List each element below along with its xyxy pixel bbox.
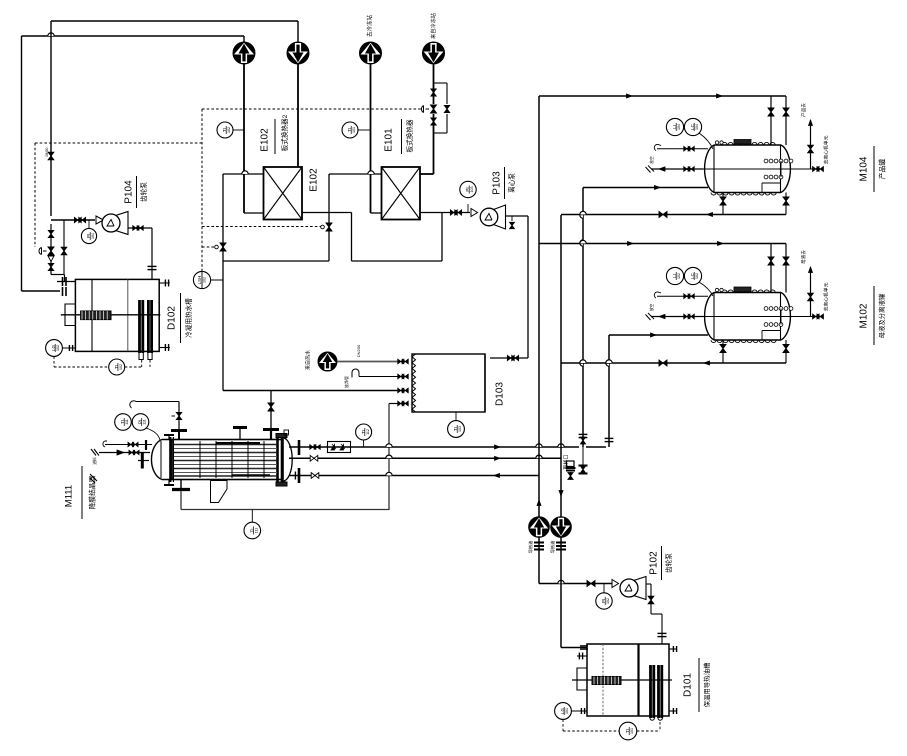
label D102 — [167, 293, 193, 343]
svg-text:DN50: DN50 — [45, 147, 49, 156]
label D103 — [495, 382, 506, 406]
label feed to D103 — [304, 344, 361, 370]
label P102 — [649, 546, 673, 580]
wire main riser x=539 (to headers) — [539, 96, 627, 476]
svg-text:E101: E101 — [384, 128, 395, 152]
svg-text:去离心机单元: 去离心机单元 — [822, 135, 829, 164]
svg-text:来自热水: 来自热水 — [304, 350, 311, 370]
wire crystallizer line1 y=447 to M104/M102 feed risers — [289, 442, 579, 453]
svg-text:101: 101 — [630, 728, 634, 734]
label E101 — [384, 119, 414, 154]
svg-text:111: 111 — [125, 419, 129, 424]
valve isolation lower on riser x=434 — [431, 114, 436, 127]
node M111 top nozzle x=240 — [233, 428, 247, 440]
vessel M111 melt crystallizer shell — [151, 434, 292, 487]
pump P103 centrifugal — [471, 205, 506, 229]
instrument TI on D102 heaters — [109, 359, 150, 375]
wire M111 axial nozzle — [138, 453, 149, 469]
instrument TI at E101 inlet — [342, 122, 371, 138]
wire M104 gooseneck nozzle — [654, 144, 708, 151]
instrument LG-101 on D101 — [555, 703, 619, 731]
node flow-arrow circle 3 (chilled brine riser x=371) — [360, 42, 382, 213]
svg-text:保温用导热油槽: 保温用导热油槽 — [702, 662, 711, 707]
wire vertical x=223 D102 riser with control valve — [215, 174, 226, 391]
wire M102 top distribution header y=243.5 — [539, 240, 789, 292]
node hose stack on x=561 — [556, 543, 566, 550]
label sample port — [562, 454, 569, 469]
wire vent gooseneck to D103 — [343, 369, 399, 388]
valve bypass on x=447 — [444, 105, 449, 112]
support boot under M111 — [211, 481, 228, 503]
label M102 — [859, 286, 887, 345]
svg-text:102: 102 — [677, 273, 681, 279]
wire riser x=434 to E101 top-right nozzle — [420, 127, 434, 174]
instrument TI at E102 inlet — [217, 122, 244, 138]
wire bypass loop around control valve TV-101 — [434, 83, 448, 133]
label to centrifuge unit M102 — [822, 282, 829, 311]
svg-text:102: 102 — [56, 345, 60, 351]
svg-text:D101: D101 — [683, 673, 694, 697]
node flow-arrow circle 7 on x=539 — [527, 517, 549, 554]
svg-text:LSH: LSH — [197, 276, 202, 285]
wire E102 left-bottom nozzle from circle-1 riser — [244, 212, 264, 214]
svg-text:母液去: 母液去 — [800, 250, 807, 264]
node flow-arrow circle 5 feed to D103 — [318, 352, 399, 371]
svg-text:产品去: 产品去 — [800, 103, 807, 117]
svg-text:放空: 放空 — [649, 156, 654, 164]
instrument PI on P102 suction — [596, 584, 612, 610]
instrument TI under D103 — [448, 412, 465, 437]
svg-text:102: 102 — [202, 277, 206, 283]
tank D101 thermal oil tank — [572, 637, 677, 720]
wire P104 discharge to D102 top — [128, 226, 157, 279]
svg-text:102: 102 — [695, 273, 699, 279]
svg-text:P102: P102 — [649, 551, 660, 575]
tank D103 with coil — [412, 354, 485, 412]
valve drain stub on P103 discharge — [510, 216, 515, 229]
wire dashed signal to valve at (223,247) — [202, 246, 216, 248]
svg-text:M111: M111 — [64, 485, 75, 507]
svg-text:102: 102 — [227, 127, 231, 133]
node D103 nozzle flanges — [398, 359, 408, 406]
wire collect header into D101 top-left nozzle — [577, 646, 588, 660]
label P103 — [492, 167, 516, 199]
wire M104 top distribution header y=96 — [627, 94, 790, 145]
instrument TI/PI pair at M111 left — [115, 414, 160, 440]
svg-text:101: 101 — [352, 127, 356, 133]
wire M102 vent line left with battery arrow — [646, 304, 704, 320]
label P104 — [124, 176, 148, 208]
wire D103 bottom outlet riser x=389 — [389, 404, 399, 511]
instrument TI on line1 — [356, 424, 372, 447]
node M111 right nozzle flanges — [298, 440, 301, 483]
wire crystallizer line3 y=475.5 return from P102 loop — [289, 472, 539, 480]
wire P102 discharge to D101 — [646, 584, 667, 644]
wire collect riser x=561 (M104+M102 drains, line2) down to D101 — [559, 215, 587, 648]
wire M102 mother-liquor riser up with arrow — [800, 250, 813, 317]
svg-text:放净管: 放净管 — [343, 376, 349, 388]
svg-text:P104: P104 — [124, 180, 135, 204]
label D101 — [683, 658, 712, 712]
svg-text:降膜结晶器: 降膜结晶器 — [87, 475, 96, 509]
node flow-arrow circle 1 (cooling water return riser x=244) — [233, 36, 255, 213]
svg-text:E102: E102 — [260, 128, 271, 152]
svg-text:D102: D102 — [167, 306, 178, 330]
wire M111 top vent line with gooseneck — [103, 440, 152, 450]
wire y=174 E102 to E101 — [329, 171, 382, 174]
node D102 left nozzles flanges — [57, 277, 75, 296]
node M111 top nozzle small x=169 — [164, 435, 174, 440]
valve station on x=51 down to D102 (isolation-control-isolation) — [39, 224, 54, 275]
node M111 top nozzle x=179 with valve — [171, 402, 187, 440]
label brine return above circle 4 — [429, 13, 437, 39]
wire dashed signal to valve at (329,227) — [202, 226, 321, 228]
node hose stack on x=539 — [534, 543, 544, 550]
instrument PI on P103 suction — [460, 181, 476, 212]
wire M104 bottom drains to header y=214.5 — [561, 193, 789, 218]
wire M102 feed riser x=609 — [605, 335, 614, 447]
svg-text:E102: E102 — [309, 168, 320, 192]
heat exchanger E102 plate type — [264, 167, 303, 220]
wire hot water from D102 to D103 y=390.5 — [223, 390, 399, 392]
svg-text:板式换热器: 板式换热器 — [405, 119, 414, 152]
wire line1 continue to riser x=609 — [586, 446, 606, 448]
svg-text:导热油: 导热油 — [549, 541, 556, 554]
svg-text:冷凝用热水槽: 冷凝用热水槽 — [184, 298, 193, 338]
svg-text:齿轮泵: 齿轮泵 — [664, 553, 673, 573]
svg-text:104: 104 — [695, 124, 699, 130]
wire vertical x=329 with valve (hot side) — [321, 174, 332, 261]
instrument PI on P104 suction — [81, 220, 96, 244]
vessel M111 internal tubes and baffles — [174, 441, 277, 478]
instrument TI under D101 — [619, 722, 660, 740]
valve isolation upper on riser x=434 — [431, 88, 436, 105]
svg-text:M104: M104 — [859, 156, 870, 181]
wire M104 centerline and right outlet — [703, 167, 823, 172]
svg-text:103: 103 — [458, 426, 462, 432]
node blind flange stub under line1 on x=583 — [579, 447, 588, 474]
svg-text:111: 111 — [254, 528, 258, 533]
wire M102 bottom drains to header y=363 — [561, 340, 789, 366]
instrument small TE on M111 shell top — [284, 430, 289, 440]
wire far-left vertical into D102 nozzle 2 — [22, 290, 61, 292]
svg-text:母液及分离液罐: 母液及分离液罐 — [877, 293, 886, 338]
wire E102 right-bottom to U-loop — [302, 213, 352, 262]
wire M102 centerline and right outlet — [703, 314, 823, 319]
wire M102 gooseneck nozzle — [654, 292, 708, 299]
wire M111 feed line with battery-limit arrow — [91, 449, 150, 465]
node flow-arrow circle 4 (brine return riser x=434) — [423, 42, 445, 88]
vessel M102 mother liquor tank — [705, 287, 793, 343]
instrument LI/LC pair on M102 — [666, 267, 713, 296]
wire P103 discharge to D103 — [490, 216, 528, 361]
instrument LG-102 on D102 — [46, 340, 109, 367]
wire top header B (y=21) to riser of circle arrow 2 — [51, 21, 298, 152]
svg-text:103: 103 — [470, 187, 474, 193]
svg-text:112: 112 — [366, 429, 370, 435]
wire M104 feed riser x=583 — [579, 188, 588, 448]
wire E101 outlet to P103 suction — [420, 210, 470, 215]
wire M104 feed entering lower-left — [583, 186, 708, 190]
node flow-arrow circle 8 on x=561 — [549, 517, 571, 554]
svg-text:101: 101 — [565, 708, 569, 714]
svg-text:齿轮泵: 齿轮泵 — [139, 182, 148, 202]
svg-text:104: 104 — [91, 233, 95, 239]
svg-text:放空: 放空 — [649, 304, 654, 312]
svg-text:进料: 进料 — [92, 457, 97, 465]
vessel M104 product tank — [705, 140, 793, 196]
label E102 — [260, 114, 289, 154]
valve control TV-101 with diaphragm actuator — [421, 105, 436, 113]
svg-text:去冷冻站: 去冷冻站 — [365, 15, 373, 38]
wire E102 left-top nozzle from x=223 — [223, 171, 264, 174]
wire crystallizer line2 y=458.3 to collect header x=561 — [289, 455, 561, 461]
label M104 — [859, 146, 887, 192]
wire E101 left-bottom from brine riser — [371, 212, 382, 214]
tank D102 hot water tank — [61, 279, 170, 359]
wire M104 vent line left with battery arrow — [646, 156, 704, 172]
wire M111 bottom drain header y=509.5 — [181, 509, 389, 511]
svg-text:M102: M102 — [859, 303, 870, 328]
wire riser x=539 lower leg to P102 suction — [537, 476, 612, 587]
node M111 top nozzle x=271 with valve from D102 water line — [263, 391, 279, 440]
svg-text:产品罐: 产品罐 — [877, 159, 886, 180]
svg-text:DN200: DN200 — [356, 344, 361, 357]
instrument level switch circle at (202,280) — [193, 271, 223, 288]
svg-text:P103: P103 — [492, 171, 503, 195]
wire into D102 top-left nozzle — [51, 275, 65, 282]
svg-text:104: 104 — [677, 124, 681, 130]
svg-text:离心泵: 离心泵 — [507, 173, 516, 193]
wire top header A (y=36) from left edge to riser of circle arrow 1 — [22, 33, 245, 291]
pump P102 gear pump — [612, 577, 646, 600]
heat exchanger E101 plate type — [382, 167, 421, 220]
svg-text:D103: D103 — [495, 382, 506, 406]
node flow-arrow circle 2 (cooling water supply riser x=298) — [287, 21, 309, 167]
svg-text:102: 102 — [606, 598, 610, 604]
wire bypass x=64 with valve — [61, 220, 67, 275]
svg-text:111: 111 — [143, 419, 147, 424]
wire vertical x=51 supply to P104 suction with valve — [45, 147, 54, 216]
svg-text:导热油: 导热油 — [527, 541, 534, 554]
label E102 tag beside box — [309, 168, 320, 192]
instrument TI under M111 drain — [244, 510, 261, 539]
wire M111 vent from gooseneck top — [130, 401, 179, 408]
wire M104 product riser up with arrow — [800, 103, 813, 169]
node M111 bottom drain nozzle — [172, 480, 190, 510]
wire hot water loop y=261 — [223, 213, 442, 261]
svg-text:板式换热器2: 板式换热器2 — [280, 114, 289, 151]
svg-text:102: 102 — [119, 364, 123, 370]
glyph small marker bottom-left of M111 — [90, 474, 97, 483]
label brine supply above circle 3 — [365, 15, 373, 38]
wire dashed signal main loop (202,109)-(423,109) and down to LS circle — [35, 109, 424, 272]
svg-text:去离心机单元: 去离心机单元 — [822, 282, 829, 311]
pump P104 gear pump — [102, 212, 128, 235]
svg-text:来自冷冻站: 来自冷冻站 — [429, 13, 437, 39]
node M111 bottom small nozzle — [164, 480, 174, 486]
node sample funnel on x=561 — [566, 461, 576, 479]
instrument LI/LC pair on M104 — [666, 118, 713, 149]
wire P104 suction header y=220 — [51, 216, 104, 224]
wire M102 feed entering lower-left — [609, 333, 708, 337]
label to centrifuge unit M104 — [822, 135, 829, 164]
label M111 — [64, 466, 97, 519]
